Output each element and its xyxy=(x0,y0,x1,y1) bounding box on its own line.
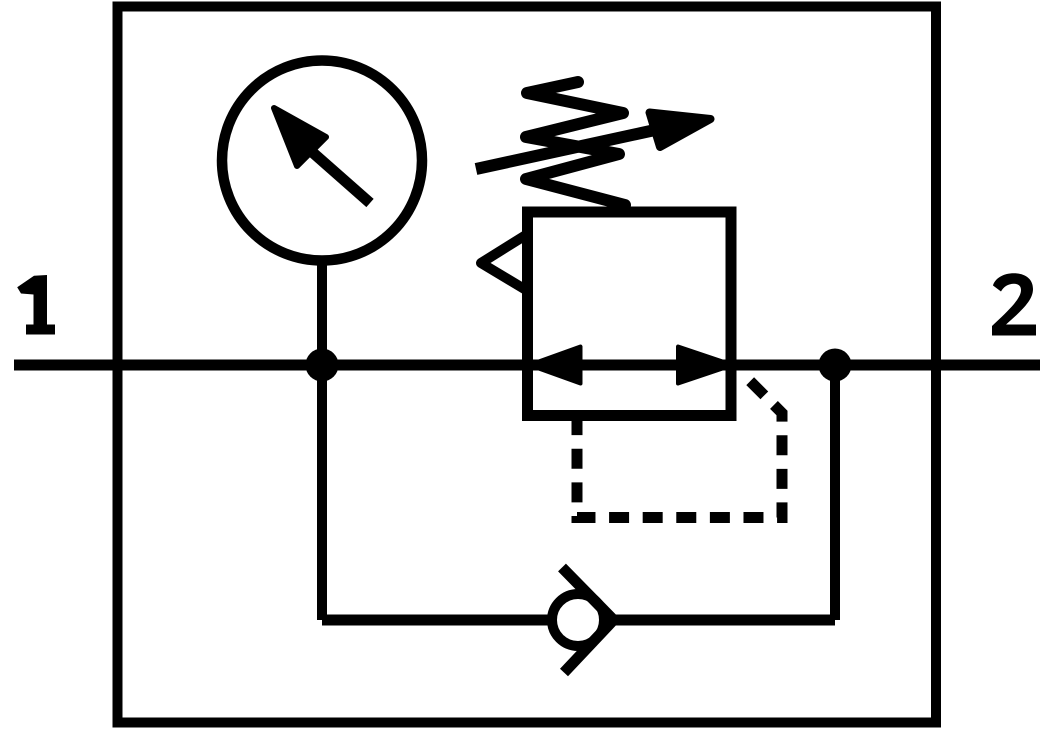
pressure gauge G1 xyxy=(222,61,422,261)
wire: main flow line 1 to 2 xyxy=(14,360,1040,371)
adjustment spring xyxy=(526,82,625,205)
enclosure box (component outline) xyxy=(118,7,937,723)
flow arrow right (inside valve) xyxy=(678,347,733,384)
node: junction dot right xyxy=(819,349,852,382)
relief vent triangle (left of valve) xyxy=(481,234,528,290)
port label 2 xyxy=(992,273,1036,335)
port label 1 xyxy=(17,275,55,335)
check valve CV1 xyxy=(552,568,614,673)
pilot line (dashed) xyxy=(577,372,782,518)
wire: bypass line left xyxy=(322,615,560,626)
wire: left branch vertical (gauge stem + bypass drop) xyxy=(317,262,327,620)
flow arrow left (inside valve) xyxy=(529,347,581,384)
node: junction dot left xyxy=(306,349,339,382)
wire: right branch vertical xyxy=(830,365,840,621)
regulator valve body U1 xyxy=(528,212,732,416)
adjustment arrow through spring xyxy=(476,113,711,170)
wire: bypass line right xyxy=(610,615,835,626)
